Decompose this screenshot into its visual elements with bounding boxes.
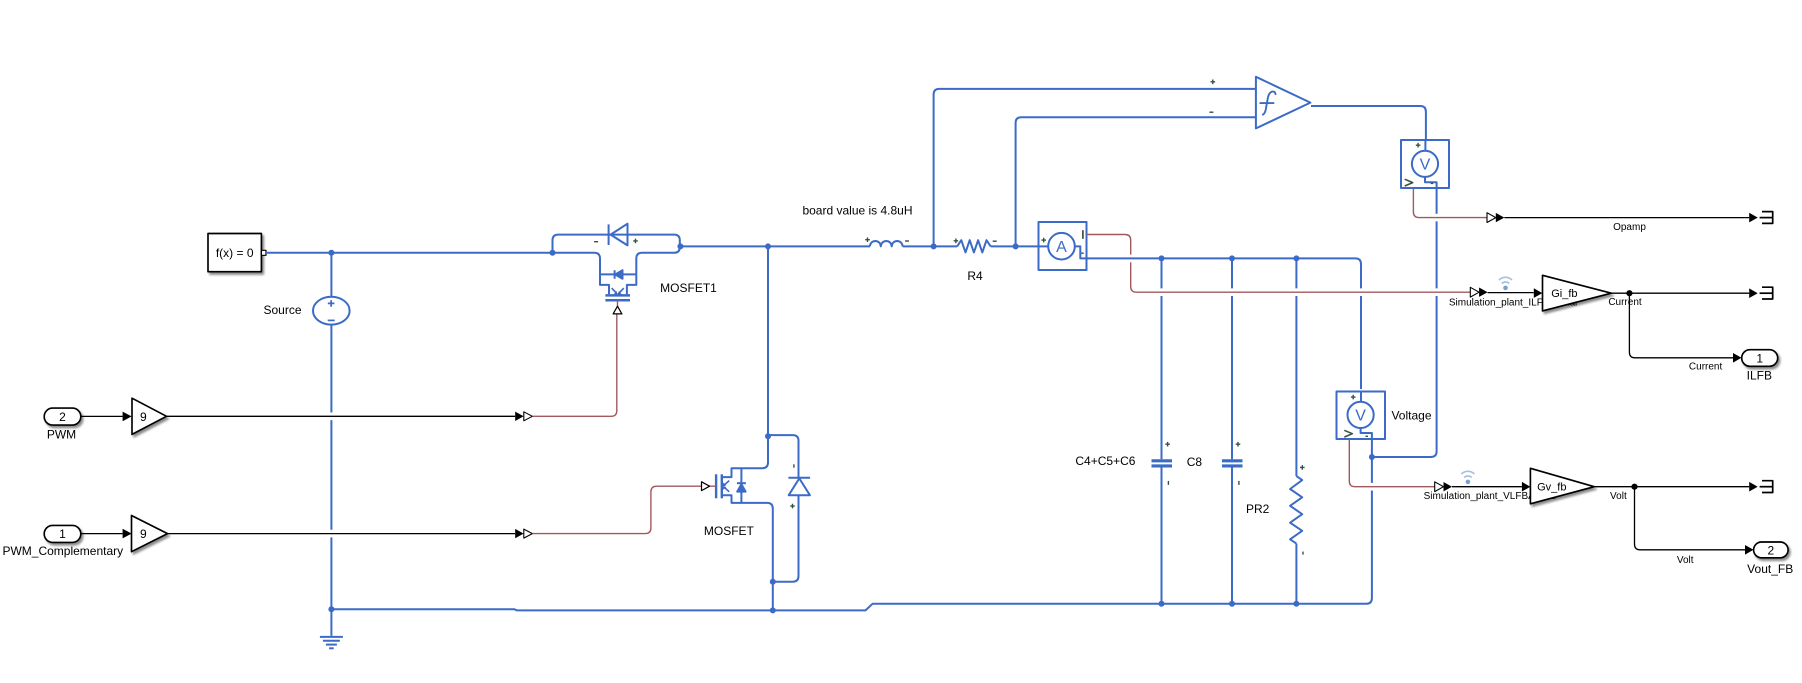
- op-amp f block: [1256, 77, 1311, 129]
- inport 2 PWM: [44, 408, 81, 441]
- wire f output to opamp voltmeter: [1311, 106, 1426, 140]
- svg-text:Source: Source: [263, 303, 301, 317]
- wire Volt signal: [1594, 486, 1749, 488]
- node MOSFET/diode merge junction: [770, 579, 776, 585]
- solver block f(x)=0: [208, 234, 266, 272]
- wireless icon (current): [1499, 277, 1512, 290]
- wire converter to Gv_fb: [1452, 486, 1522, 488]
- wire MOSFET1 out to inductor: [680, 245, 870, 247]
- svg-text:Volt: Volt: [1610, 491, 1627, 502]
- inport 1 PWM_Complementary: [2, 525, 123, 557]
- converter arrows (current row): [1470, 287, 1479, 297]
- node PR2 top junction: [1293, 255, 1299, 261]
- gain Gi_fb: [1543, 275, 1612, 311]
- wire output bus: [1087, 258, 1362, 389]
- wire Voltage meter red out: [1349, 439, 1434, 487]
- port Volt out: [1760, 481, 1773, 493]
- wire merge to bus: [772, 582, 774, 611]
- wire R4 to ammeter: [991, 245, 1039, 247]
- capacitor C8: [1222, 258, 1243, 603]
- wire f(x)=0 to MOSFET1: [266, 252, 553, 254]
- wire Current to ILFB: [1629, 293, 1733, 358]
- wire voltmeter out to node: [1371, 439, 1373, 457]
- ground: [320, 609, 343, 648]
- inductor polarity labels: [865, 237, 909, 242]
- MOSFET1 gate stub (red) and port arrow: [617, 300, 619, 306]
- svg-text:Current: Current: [1689, 362, 1723, 373]
- wireless icon (volt): [1461, 471, 1474, 484]
- svg-text:Volt: Volt: [1677, 555, 1694, 566]
- svg-text:MOSFET1: MOSFET1: [660, 281, 717, 295]
- wire converter to MOSFET gate (red): [532, 486, 701, 533]
- svg-text:PWM_Complementary: PWM_Complementary: [2, 544, 123, 558]
- node Current junction: [1626, 290, 1632, 296]
- gain 9 (PWM_Complementary): [132, 516, 168, 552]
- wire PWM_Complementary to gain: [81, 533, 123, 535]
- MOSFET1 internal body diode: [600, 273, 636, 275]
- port Current out: [1760, 287, 1773, 299]
- MOSFET body diode vertical: [740, 468, 742, 503]
- wire riser to f plus input: [934, 89, 1256, 247]
- wire PWM to gain: [81, 415, 123, 417]
- svg-text:1: 1: [59, 527, 66, 541]
- node bus junction below MOSFET: [770, 607, 776, 613]
- wire gain to converter (PWM_Complementary row): [168, 533, 516, 535]
- R4 polarity labels: [954, 239, 997, 244]
- node cap C4 bottom junction: [1159, 601, 1165, 607]
- node ground junction: [328, 606, 334, 612]
- gain 9 (PWM): [132, 398, 167, 434]
- svg-text:PR2: PR2: [1246, 502, 1270, 516]
- wire Opamp signal: [1504, 217, 1749, 219]
- wire gain to converter (PWM row): [167, 415, 516, 417]
- diode D1 (top, in MOSFET1 outline): [608, 224, 610, 245]
- wire converter to MOSFET1 gate (red): [532, 314, 616, 416]
- MOSFET1 channel arrows: [612, 288, 618, 294]
- svg-text:f(x) = 0: f(x) = 0: [216, 246, 254, 260]
- node minus-sense junction: [1013, 243, 1019, 249]
- f input polarity labels: [1209, 80, 1215, 113]
- svg-text:A: A: [1056, 239, 1067, 256]
- node PR2 bottom junction: [1293, 601, 1299, 607]
- svg-text:Gi_fb: Gi_fb: [1551, 288, 1577, 300]
- wire converter to Gi_fb: [1488, 292, 1534, 294]
- MOSFET1 polarity labels: [594, 239, 638, 244]
- svg-text:board value is 4.8uH: board value is 4.8uH: [802, 203, 912, 217]
- port Opamp out: [1760, 212, 1773, 224]
- resistor PR2: [1290, 258, 1302, 603]
- outport 2 Vout_FB: [1747, 542, 1793, 576]
- wire opamp meter red out: [1413, 188, 1487, 218]
- node plus-sense junction: [931, 243, 937, 249]
- outport 1 ILFB: [1742, 350, 1778, 383]
- svg-text:Voltage: Voltage: [1391, 409, 1431, 423]
- MOSFET gate stub (red) and port arrow: [710, 485, 716, 487]
- wire junction to source: [330, 253, 332, 297]
- svg-text:R4: R4: [967, 269, 983, 283]
- transistor MOSFET (lower, rotated): [716, 436, 773, 582]
- wire Volt to Vout_FB: [1635, 487, 1746, 550]
- resistor R4: [957, 240, 991, 252]
- wire bottom bus: [331, 457, 1372, 610]
- svg-text:Opamp: Opamp: [1613, 222, 1646, 233]
- diode D2 (freewheeling): [768, 435, 810, 582]
- wire ammeter I out (red): [1087, 235, 1471, 293]
- ammeter A1: [1039, 222, 1087, 270]
- node Volt junction: [1631, 484, 1637, 490]
- MOSFET channel arrows: [723, 481, 729, 486]
- voltmeter U1 (opamp measurement): [1401, 140, 1449, 188]
- wire Current signal: [1611, 292, 1749, 294]
- svg-text:9: 9: [140, 410, 147, 424]
- SECTION:MOSFETS-END: [802, 77, 1470, 607]
- node switch-node junction: [765, 243, 771, 249]
- SECTION:MIDDLE-END: [1349, 188, 1793, 576]
- svg-text:Gv_fb: Gv_fb: [1537, 481, 1566, 493]
- node source-top junction: [328, 250, 334, 256]
- wire inductor to R4: [903, 245, 958, 247]
- diode D2 polarity labels: [790, 464, 795, 508]
- gain Gv_fb: [1530, 468, 1594, 504]
- node MOSFET branch junction: [765, 433, 771, 439]
- svg-text:ILFB: ILFB: [1747, 368, 1772, 382]
- node cap C4 top junction: [1159, 255, 1165, 261]
- svg-text:Vout_FB: Vout_FB: [1747, 562, 1793, 576]
- svg-text:9: 9: [140, 527, 147, 541]
- node MOSFET1 out junction: [677, 243, 683, 249]
- node measure junction: [1369, 454, 1375, 460]
- svg-text:Current: Current: [1608, 297, 1642, 308]
- voltmeter Voltage: [1337, 392, 1386, 440]
- voltage source Source: [313, 297, 350, 325]
- MOSFET1 channel and gate bars: [605, 294, 630, 297]
- svg-text:C8: C8: [1187, 455, 1203, 469]
- svg-text:V: V: [1355, 408, 1366, 425]
- wire switch node down to MOSFET: [767, 246, 769, 436]
- svg-text:PWM: PWM: [47, 427, 76, 441]
- wire opamp voltmeter in (from top V block): [1372, 188, 1437, 457]
- capacitor C4+C5+C6: [1152, 258, 1173, 603]
- svg-text:C4+C5+C6: C4+C5+C6: [1075, 454, 1135, 468]
- svg-text:V: V: [1420, 157, 1431, 174]
- inductor L1: [870, 241, 903, 246]
- svg-text:2: 2: [1767, 543, 1774, 557]
- node cap C8 bottom junction: [1229, 601, 1235, 607]
- wire source to ground bus: [330, 325, 332, 610]
- svg-text:MOSFET: MOSFET: [704, 524, 755, 538]
- node cap C8 top junction: [1229, 255, 1235, 261]
- svg-text:1: 1: [1756, 351, 1763, 365]
- node MOSFET1 left junction: [550, 250, 556, 256]
- wire riser to f minus input: [1016, 117, 1256, 246]
- transistor MOSFET1 (with body diode, subsystem outline): [553, 224, 680, 301]
- svg-text:2: 2: [59, 410, 66, 424]
- SECTION:LEFT-END: [550, 224, 870, 614]
